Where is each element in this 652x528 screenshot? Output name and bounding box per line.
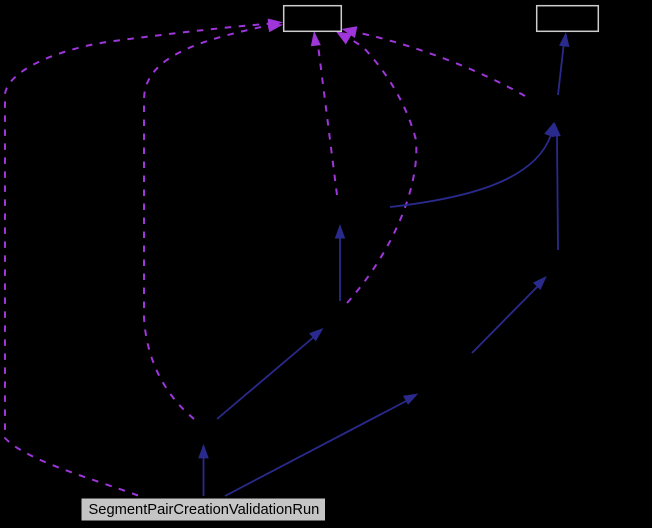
svg-text:SegmentPairCreationValidationR: SegmentPairCreationValidationRun: [89, 502, 320, 518]
